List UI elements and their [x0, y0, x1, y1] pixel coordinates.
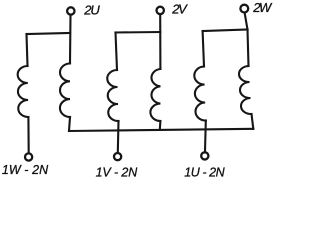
svg-text:1W - 2N: 1W - 2N: [2, 163, 49, 177]
svg-text:2U: 2U: [83, 2, 100, 17]
svg-text:1V - 2N: 1V - 2N: [96, 165, 139, 179]
svg-text:1U - 2N: 1U - 2N: [184, 166, 225, 180]
svg-text:2V: 2V: [171, 2, 188, 17]
svg-text:2W: 2W: [252, 0, 273, 15]
